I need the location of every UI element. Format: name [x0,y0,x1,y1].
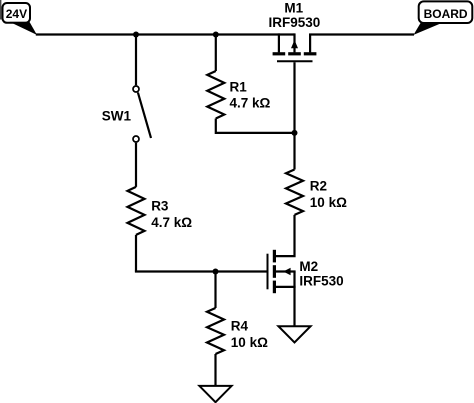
resistor R4 [207,308,224,354]
junction node A (SW1 branch on bus) [133,32,139,38]
body lead with arrow [275,270,295,272]
svg-text:SW1: SW1 [102,108,132,123]
wire bus right (M1 drain to BOARD) [311,33,414,35]
svg-text:10 kΩ: 10 kΩ [231,335,268,350]
svg-text:IRF530: IRF530 [299,274,343,289]
wire R3 to gate rail [135,235,137,272]
wire bus left (24V to M1 source/body) [36,33,295,35]
net tag BOARD [414,1,473,35]
svg-text:10 kΩ: 10 kΩ [310,195,347,210]
transistor M1 (P-MOSFET IRF9530) [273,33,317,61]
resistor R3 [128,187,145,235]
svg-text:R4: R4 [231,319,249,334]
wire SW1 to R3 [135,143,137,187]
edge sliver artifact [0,0,1,20]
drain stub [309,33,311,52]
ground GND1 [199,386,231,402]
channel bar source [273,52,286,55]
wire R2 to M2 drain [275,215,294,256]
svg-text:IRF9530: IRF9530 [269,15,321,30]
svg-text:4.7 kΩ: 4.7 kΩ [151,215,192,230]
svg-text:R3: R3 [151,199,169,214]
wire node D to R2 [293,133,295,170]
gate plate [277,60,313,62]
wire bus to SW1 [135,35,137,86]
wire M1 gate lead to node D [293,62,295,133]
svg-text:M1: M1 [284,1,303,16]
wire R4 to ground [214,354,216,386]
svg-text:BOARD: BOARD [424,7,468,21]
junction node C (R1 branch on bus) [213,32,219,38]
channel bar body [288,52,301,55]
transistor M2 (N-MOSFET IRF530) [268,250,296,293]
junction node D (M1 gate / R1 / R2) [292,130,298,136]
body stub [293,33,295,52]
switch SW1 [133,86,151,142]
svg-text:4.7 kΩ: 4.7 kΩ [230,96,271,111]
ground GND2 [278,326,310,342]
wire R1 bottom to gate node [216,119,295,133]
source stub [278,33,280,52]
source lead [275,286,295,288]
svg-text:R1: R1 [230,79,248,94]
resistor R1 [207,71,224,119]
channel bar drain [304,52,317,55]
resistor R2 [286,170,303,215]
wire bus to R1 [215,35,217,72]
svg-text:24V: 24V [6,7,27,21]
wire gate rail to M2 gate [135,270,267,272]
channel bar body [273,265,276,278]
junction node B (R4 branch) [213,269,219,275]
net tag 24V [3,3,37,35]
gate plate [267,254,269,290]
wire M2 source/body to ground [293,272,295,327]
body arrow (P-channel, pointing up) [291,40,298,48]
svg-text:R2: R2 [310,179,327,194]
channel bar source [273,281,276,294]
svg-text:M2: M2 [299,259,318,274]
wire node B to R4 [214,272,216,309]
channel bar drain [273,250,276,263]
